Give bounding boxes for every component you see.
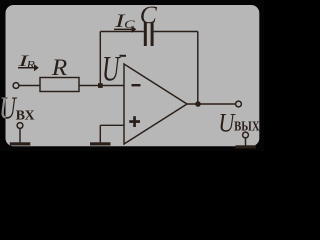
- svg-text:C: C: [124, 18, 135, 30]
- svg-text:U: U: [218, 110, 235, 138]
- svg-text:R: R: [25, 58, 35, 70]
- svg-text:ВЫХ: ВЫХ: [234, 118, 260, 134]
- svg-text:R: R: [51, 56, 68, 81]
- svg-text:U: U: [102, 49, 121, 89]
- svg-text:ВХ: ВХ: [16, 108, 35, 123]
- svg-text:C: C: [140, 0, 158, 29]
